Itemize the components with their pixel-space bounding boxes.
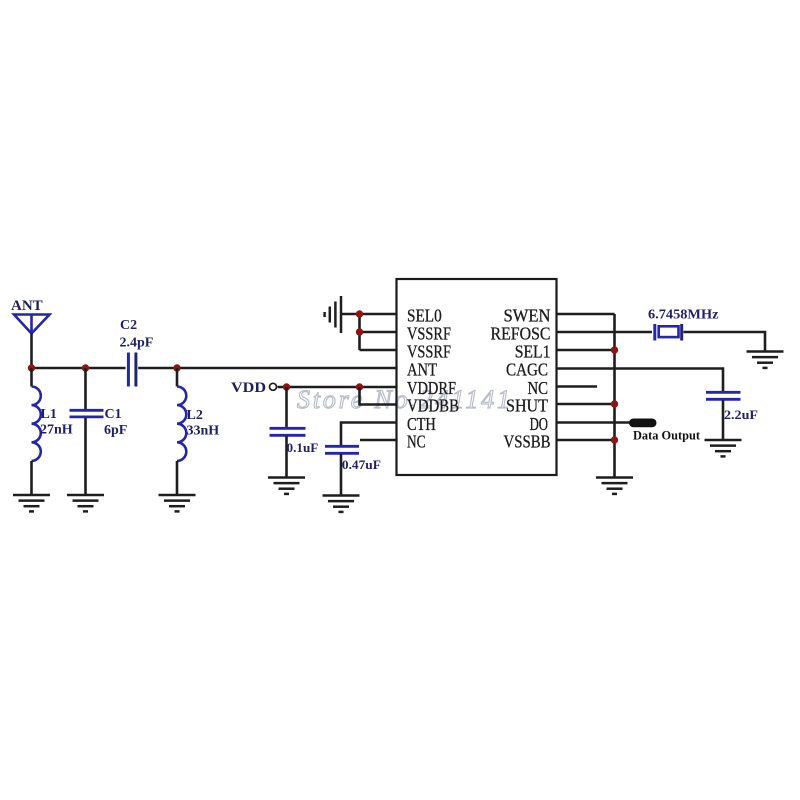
capacitor 2.2uF xyxy=(706,392,758,439)
ground right of crystal xyxy=(747,352,784,368)
svg-text:NC: NC xyxy=(407,432,425,452)
svg-text:SWEN: SWEN xyxy=(504,306,551,326)
wire NC stub (right) xyxy=(557,385,598,388)
svg-text:ANT: ANT xyxy=(11,298,43,314)
antenna ANT xyxy=(11,298,50,334)
svg-text:SEL1: SEL1 xyxy=(515,342,551,362)
wire CAGC to 2.2uF xyxy=(557,369,724,392)
wire ground to SEL0 xyxy=(342,313,397,316)
node junction SEL0 xyxy=(356,310,363,317)
svg-text:2.2uF: 2.2uF xyxy=(724,407,758,422)
op-amp / IC U1 body border xyxy=(397,279,557,475)
node junction VSSBB xyxy=(611,436,618,443)
capacitor C1 6pF xyxy=(70,368,128,495)
wire crystal to ground xyxy=(684,332,766,351)
node junction VDD/0.1uF xyxy=(283,383,290,390)
wire SHUT stub xyxy=(557,403,615,406)
ground under L1 xyxy=(13,495,50,511)
wire DO to data output marker xyxy=(557,421,632,424)
svg-text:C1: C1 xyxy=(105,407,122,422)
wire VDD to IC pin VDDRF xyxy=(278,386,398,389)
svg-text:6.7458MHz: 6.7458MHz xyxy=(648,308,719,323)
svg-text:33nH: 33nH xyxy=(187,424,220,439)
svg-text:SEL0: SEL0 xyxy=(407,306,442,326)
wire main net left of C2 xyxy=(32,367,126,370)
svg-text:Data Output: Data Output xyxy=(633,428,701,442)
node junction VDDRF/VDDBB xyxy=(356,383,363,390)
wire antenna stem xyxy=(30,334,33,370)
node junction SEL1 xyxy=(611,346,618,353)
svg-text:VDDBB: VDDBB xyxy=(407,396,459,416)
ground under 0.1uF xyxy=(268,478,305,494)
ground under C1 xyxy=(67,495,104,511)
wire REFOSC to crystal xyxy=(557,331,653,334)
svg-text:VSSBB: VSSBB xyxy=(504,432,551,452)
svg-text:VDD: VDD xyxy=(231,380,266,396)
wire main net right of C2 to IC pin ANT xyxy=(138,367,397,370)
ground under vertical bus xyxy=(596,478,633,494)
wire CTH branch xyxy=(341,423,397,446)
node junction SHUT xyxy=(611,400,618,407)
svg-text:L2: L2 xyxy=(187,408,203,423)
wire VSSRF stub 2 xyxy=(360,349,398,352)
svg-text:Store No.241141: Store No.241141 xyxy=(297,385,510,414)
ground under 2.2uF xyxy=(705,440,742,456)
ground under L2 xyxy=(159,495,196,511)
svg-text:ANT: ANT xyxy=(407,360,437,380)
node junction antenna/L1 xyxy=(28,364,35,371)
svg-text:C2: C2 xyxy=(120,318,137,333)
wire VSSBB stub xyxy=(557,439,615,442)
capacitor C2 2.4pF (series) xyxy=(120,318,154,387)
crystal Y1 6.7458MHz xyxy=(648,308,719,341)
svg-text:REFOSC: REFOSC xyxy=(491,324,551,344)
svg-text:VSSRF: VSSRF xyxy=(407,324,451,344)
wire SWEN to vertical bus xyxy=(557,313,615,316)
wire NC stub (left) xyxy=(360,439,397,442)
svg-text:6pF: 6pF xyxy=(104,423,127,438)
capacitor 0.47uF xyxy=(325,446,381,495)
wire SEL1 stub xyxy=(557,349,615,352)
ground (rotated, at SEL0/VSSRF) xyxy=(325,296,341,333)
svg-text:0.47uF: 0.47uF xyxy=(342,457,381,472)
svg-text:VSSRF: VSSRF xyxy=(407,342,451,362)
inductor L2 33nH xyxy=(177,368,219,495)
power VDD terminal xyxy=(231,380,277,396)
wire vertical bus right of IC xyxy=(613,314,616,477)
Data Output marker (pill) xyxy=(629,419,657,428)
svg-text:SHUT: SHUT xyxy=(506,396,548,416)
svg-text:CAGC: CAGC xyxy=(506,360,548,380)
svg-text:0.1uF: 0.1uF xyxy=(287,440,319,455)
svg-text:27nH: 27nH xyxy=(40,423,73,438)
op-amp / IC U1 body fill xyxy=(397,279,557,475)
wire VSSRF stub 1 xyxy=(360,331,398,334)
node junction C1 xyxy=(82,364,89,371)
capacitor 0.1uF xyxy=(270,387,319,477)
node junction L2 xyxy=(173,364,180,371)
wire VDDBB branch xyxy=(360,387,398,405)
node junction VSSRF xyxy=(356,328,363,335)
svg-text:L1: L1 xyxy=(41,407,57,422)
ground under 0.47uF xyxy=(323,496,360,512)
wire vertical SEL0/VSSRF/VSSRF xyxy=(358,314,361,350)
svg-text:2.4pF: 2.4pF xyxy=(120,335,154,350)
inductor L1 27nH xyxy=(32,368,73,495)
